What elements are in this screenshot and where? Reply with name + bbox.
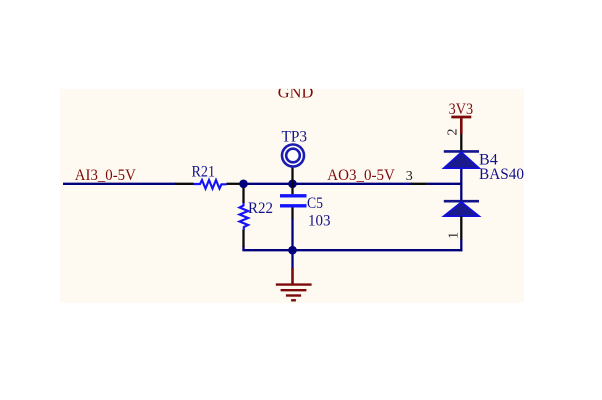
svg-text:BAS40: BAS40 [479, 166, 524, 183]
test point TP3 outer circle [282, 145, 304, 167]
pin R22 top (black lead) [242, 184, 244, 203]
wire R22 bottom corner vertical [242, 246, 244, 250]
svg-text:AO3_0-5V: AO3_0-5V [327, 167, 395, 184]
diode D-upper triangle [444, 152, 480, 168]
svg-text:R21: R21 [192, 164, 216, 181]
ground symbol stem [291, 268, 294, 284]
pin R21 right (black lead) [227, 183, 241, 185]
pin 2 of B4 (black lead) [460, 134, 462, 151]
schematic sheet background [60, 89, 524, 303]
wire AI3 net horizontal main [63, 183, 176, 185]
wire from R21 to node A [240, 183, 413, 185]
wire between diodes vertical [460, 168, 462, 202]
svg-text:R22: R22 [248, 200, 273, 217]
pin C5 top (black lead) [291, 184, 293, 194]
wire bottom net horizontal [242, 249, 462, 251]
wire diode bottom corner vertical [460, 239, 462, 251]
diode D-lower triangle [444, 202, 480, 216]
svg-text:TP3: TP3 [282, 128, 308, 145]
power symbol 3V3 stem [460, 117, 463, 134]
wire AO3 segment to diode stack [428, 183, 463, 185]
svg-text:1: 1 [447, 232, 462, 239]
ground symbol bar 1 [276, 283, 312, 285]
wire C5 bottom to bottom net [291, 218, 293, 250]
svg-text:3V3: 3V3 [449, 101, 474, 118]
ground symbol bar 3 [286, 294, 301, 296]
pin 1 of B4 (black lead) [460, 216, 462, 239]
svg-text:103: 103 [308, 212, 331, 229]
capacitor C5 bottom plate [280, 204, 307, 207]
svg-text:3: 3 [406, 169, 413, 184]
junction dot node A (R21/R22) [239, 180, 248, 189]
ground symbol bar 4 [291, 299, 296, 301]
wire node C to ground stem [291, 250, 293, 269]
power symbol 3V3 bar [451, 116, 471, 119]
svg-text:GND: GND [278, 84, 314, 101]
svg-text:2: 2 [446, 129, 461, 136]
test point TP3 inner circle [286, 149, 300, 163]
pin 3 of B4 (black lead over wire) [411, 183, 428, 185]
svg-text:AI3_0-5V: AI3_0-5V [75, 167, 136, 184]
diode D-upper cathode bar [444, 150, 479, 153]
pin R22 bottom (black lead) [242, 230, 244, 248]
ground symbol bar 2 [281, 289, 307, 291]
svg-text:C5: C5 [307, 195, 323, 212]
test point TP3 pin (black lead) [291, 166, 293, 184]
resistor R21 zigzag [194, 180, 227, 189]
diode D-lower cathode bar [444, 200, 479, 203]
net label GND (clipped at sheet top) [278, 84, 314, 101]
pin C5 bottom (black lead) [291, 208, 293, 219]
junction dot node B (TP3/C5) [288, 180, 297, 189]
resistor R22 zigzag [240, 203, 249, 230]
capacitor C5 top plate [280, 194, 307, 197]
pin R21 left (black lead) [175, 183, 194, 185]
junction dot node C (C5/ground/bottom net) [288, 246, 297, 255]
